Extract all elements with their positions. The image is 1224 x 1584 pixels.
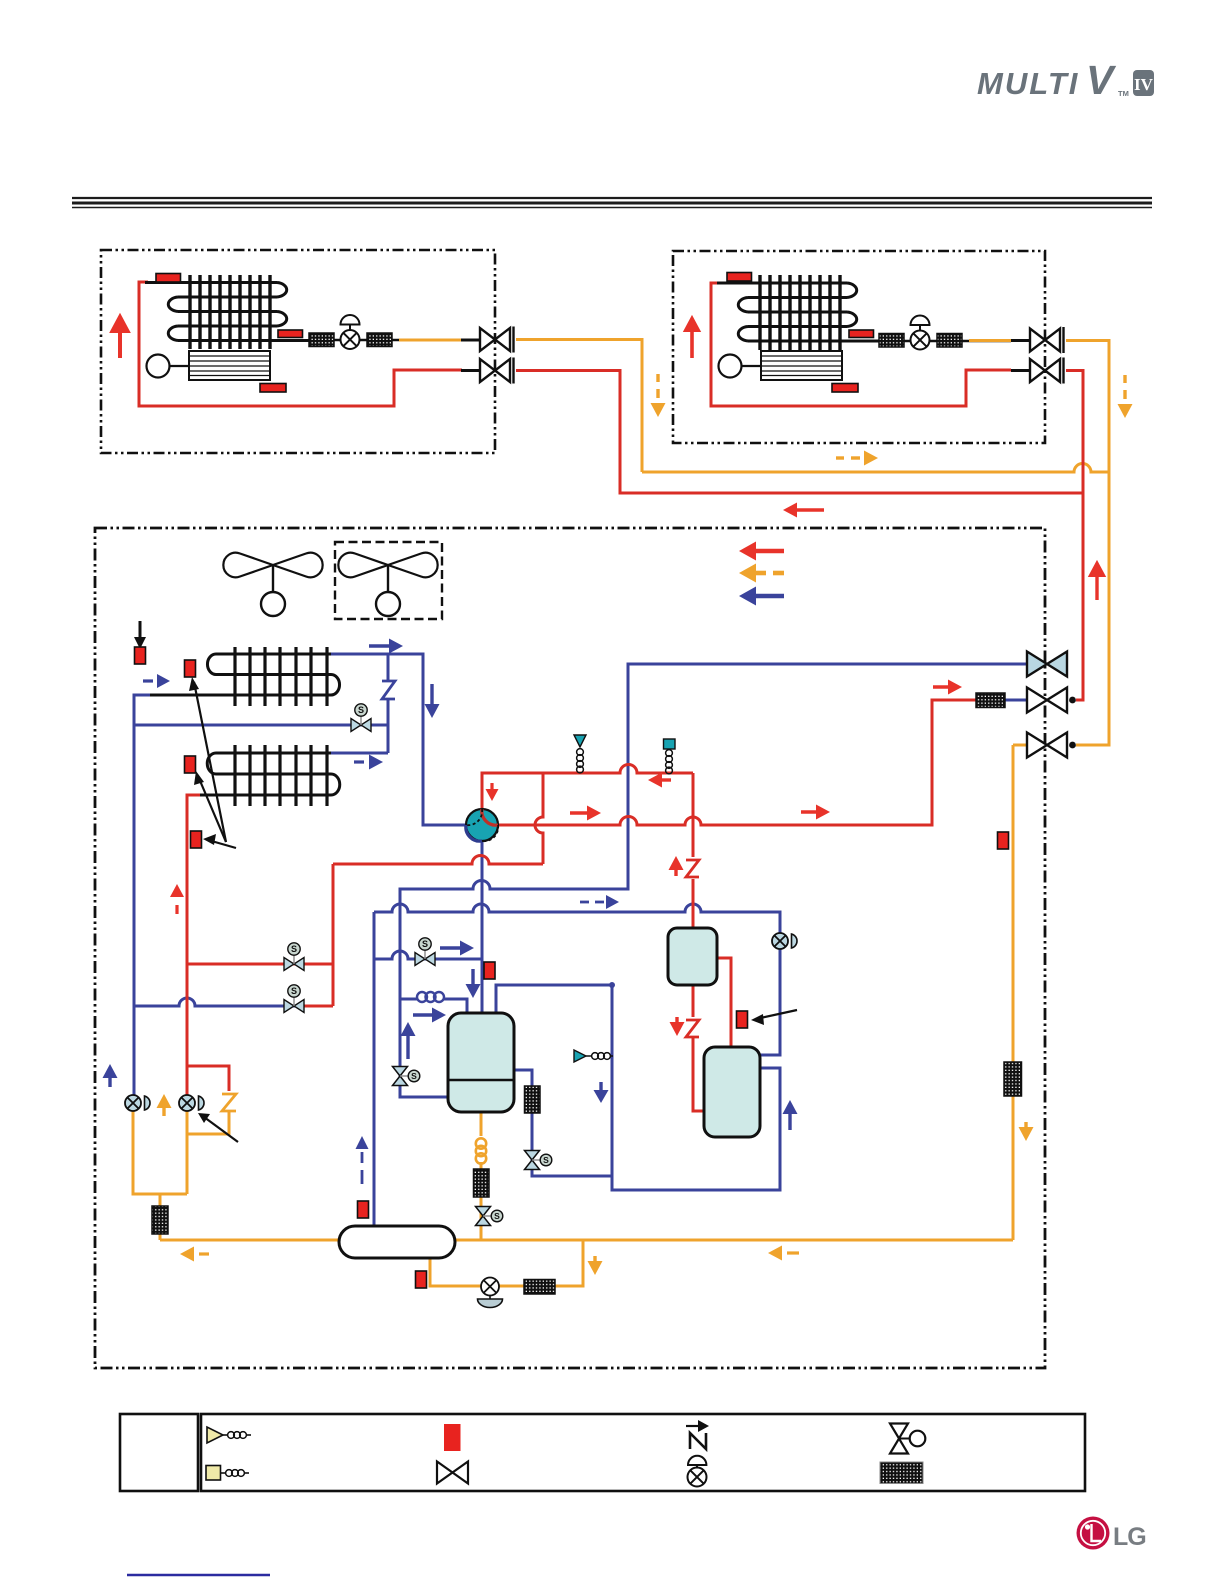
wire hot gas header (333, 856, 543, 865)
solenoid valve (hot gas upper) (284, 943, 304, 971)
indoor unit 2 fan coil (761, 351, 842, 380)
flow arrow navy up (left header) (103, 1064, 118, 1078)
flow arrow red right (hot gas 1) (570, 811, 589, 814)
service valve HP gas (filled) (1027, 652, 1067, 677)
wire hot-gas solenoid branch upper (187, 963, 333, 966)
wire hot-gas vertical with hop (535, 773, 543, 864)
wire HP gas service valve line (400, 664, 1028, 1097)
sensor (subcooler out) (737, 1011, 748, 1028)
service valve liquid (1027, 688, 1067, 713)
sensor (pipe temp, coil in) (156, 274, 181, 283)
vertical valve w/ S (liquid injection) (393, 1067, 420, 1086)
strainer (367, 333, 392, 347)
LG logo (1077, 1517, 1146, 1552)
wire gas service valve drop (1013, 745, 1028, 1240)
wire oil separator feed with Z gap (692, 773, 695, 928)
solenoid valve (hot gas lower) (284, 985, 304, 1013)
Z break red (subcooler drop) (686, 1020, 699, 1037)
wire defrost bypass lower segment (387, 700, 390, 753)
discharge pressure sensor (square) (664, 739, 676, 749)
flow arrow dashed yellow down (right of indoor2) (1123, 375, 1126, 399)
indoor unit 1 box (101, 250, 495, 453)
wire yellow indoor2 riser to gas service valve (1066, 341, 1109, 746)
solenoid valve (defrost line) (351, 704, 371, 732)
strainer (oil return) (474, 1169, 490, 1197)
wire red indoor1 to field piping (516, 371, 1083, 494)
wire yellow common field pipe (642, 464, 1109, 472)
outdoor unit box (95, 528, 1045, 1368)
indoor unit 2 liquid line (879, 340, 1011, 343)
flow arrow red down (subcooler drop) (675, 1017, 678, 1023)
wire lower solenoid branch (134, 998, 304, 1006)
solenoid valve (suction branch) (415, 938, 435, 966)
sensor (air temp) (260, 384, 286, 393)
sensor (outdoor air) with arrow (139, 621, 142, 641)
wire subcooler upper to lower (bottom) with Z gap (693, 985, 704, 1111)
wire subcooler upper to lower (side) (717, 958, 731, 1047)
flow arrow red right (hot gas 2) (801, 810, 818, 813)
wire oil balance (511, 1070, 612, 1176)
suction pressure sensor on injection drop (574, 1050, 586, 1062)
flow arrow red left (above outdoor unit) (783, 503, 797, 518)
strainer (oil balance) (525, 1086, 541, 1113)
sensor (coil1 temp) (185, 660, 196, 677)
indoor unit 1 gas pipe (red) (139, 282, 462, 406)
wire coil1 row3 to left header (134, 695, 150, 1096)
sensor (coil in, indoor2) (727, 273, 752, 282)
valve stub wires indoor 2 (1011, 339, 1030, 342)
annotation arrow to liquid sensor (208, 840, 236, 848)
flow arrow yellow dashed left (main line left) (180, 1247, 194, 1262)
wire EEV1 outlet (133, 1110, 187, 1194)
flow arrow navy dashed right (coil2 in) (354, 760, 364, 763)
indoor unit 1 fan motor (147, 355, 170, 378)
sensor (pipe temp, coil out) (278, 330, 303, 338)
yellow oil spring (476, 1138, 486, 1163)
outdoor coil 2 fins (235, 745, 327, 806)
triple rule (72, 198, 1152, 208)
outdoor coil 2 (lower) (200, 753, 340, 795)
annotation arrow to coil1 sensor (194, 682, 226, 842)
sensor (liquid pipe) (191, 831, 202, 848)
sensor (coil2 temp) (185, 756, 196, 773)
wire defrost bypass upper segment (387, 654, 390, 680)
service valve low pressure gas (1027, 733, 1067, 758)
indoor unit 2 gas pipe (red) (711, 283, 1011, 406)
wire liquid yellow (399, 339, 462, 342)
wire inductor line to compressor (400, 999, 467, 1013)
strainer (937, 334, 962, 348)
indoor unit 1 heat exchanger coil (168, 283, 309, 341)
flow arrow navy right (inductor line) (413, 1013, 433, 1016)
legend main box (201, 1414, 1085, 1491)
red flow arrow up (indoor 2) (685, 317, 700, 331)
wire 4-way to liquid line (498, 700, 976, 825)
flow arrow navy dashed up (accumulator drop) (356, 1136, 369, 1149)
indoor unit 2 box (673, 251, 1045, 443)
indoor unit 1 coil fins (190, 275, 270, 349)
strainer (879, 334, 904, 348)
stop valve (indoor1 liquid) (480, 327, 514, 353)
vertical valve w/ S (oil balance) (525, 1151, 552, 1170)
wire EEV2 outlet (186, 1110, 189, 1194)
legend expansion valve symbol (688, 1456, 706, 1465)
stop valve (indoor1 gas) (480, 358, 514, 384)
strainer (accumulator drain) (524, 1280, 555, 1295)
strainer (liquid main left) (152, 1206, 168, 1234)
red flow arrow up (indoor 1) (113, 317, 128, 358)
oil separator (subcooler upper vessel) (668, 928, 717, 985)
wire coil2 outlet red drop (187, 795, 200, 1095)
flow arrow navy up (subcooler return) (783, 1100, 798, 1114)
sensor (gas pipe right) (998, 832, 1009, 849)
MULTI V IV logo (977, 57, 1154, 103)
wire red indoor2 riser to liquid service valve (1066, 371, 1083, 701)
wire liquid out to main line (159, 1194, 162, 1240)
flow arrow navy up (injection valve) (401, 1022, 416, 1036)
electronic expansion valve (indoor 2) (911, 316, 930, 350)
strainer (309, 333, 334, 347)
annotation arrow to subcooler sensor (756, 1010, 797, 1019)
wire compressor injection return (496, 985, 780, 1190)
flow arrow navy right (coil1 out) (369, 644, 392, 647)
flow arrow navy down (injection drop) (599, 1082, 602, 1092)
subcooler lower vessel (704, 1047, 760, 1137)
legend arrow yellow dashed left (739, 564, 756, 583)
sensor (coil out, indoor2) (849, 330, 874, 338)
sensor (suction pipe) (484, 962, 495, 979)
4-way valve (466, 809, 498, 841)
wire yellow indoor1 to field piping (516, 340, 642, 473)
valve stub wires indoor 1 (461, 339, 480, 342)
legend service valve symbol (890, 1424, 908, 1454)
flow arrow navy dashed right (suction header) (580, 901, 604, 904)
indoor unit 2 fan motor (719, 355, 742, 378)
flow arrow dashed yellow right (below indoor2) (836, 456, 860, 459)
Z break navy (382, 681, 395, 699)
legend strainer symbol (880, 1462, 923, 1484)
indoor unit 2 coil inlet wire (717, 282, 847, 285)
flow arrow dashed yellow down (left of indoor2) (656, 374, 659, 398)
legend check valve symbol (207, 1427, 223, 1443)
flow arrow red dashed up (coil2 drop) (170, 884, 184, 897)
stop valve (indoor2 liquid) (1030, 327, 1064, 353)
annotation arrow to EEV2 (204, 1117, 238, 1142)
wire discharge top (482, 765, 693, 810)
wire EEV2 branch to Z (187, 1066, 229, 1091)
vertical valve w/ S (oil return) (476, 1207, 503, 1226)
legend capillary symbol (206, 1466, 221, 1481)
wire strainer to liquid service valve (1005, 699, 1028, 702)
compressor (448, 1013, 514, 1112)
strainer (liquid service) (976, 693, 1005, 708)
svg-text:MULTI: MULTI (977, 66, 1079, 101)
wire 4-way to compressor suction (481, 841, 484, 1013)
flow arrow navy right (solenoid branch) (440, 946, 461, 949)
indoor unit 1 liquid line (309, 339, 462, 342)
flow arrow red down (4-way in) (490, 783, 493, 790)
flow arrow navy dashed right (into coil1) (143, 679, 153, 682)
footer rule blue (127, 1574, 270, 1576)
legend Z break symbol (686, 1425, 701, 1427)
flow arrow yellow dashed left (main line right) (768, 1246, 782, 1261)
flow arrow red right (to liquid valve) (933, 685, 950, 688)
indoor unit 1 coil inlet wire (145, 281, 277, 284)
legend arrow red left (739, 542, 756, 561)
outdoor fan 2 (optional, dashed box) (335, 542, 442, 619)
wire solenoid branch upper (134, 724, 388, 727)
outdoor fan 1 (223, 553, 322, 616)
electronic expansion valve (indoor 1) (341, 315, 360, 349)
outdoor coil 1 (upper) (150, 654, 340, 695)
wire compressor oil return (480, 1112, 483, 1240)
wire main suction line (160, 1239, 1013, 1242)
indoor unit 1 fan coil (189, 351, 270, 380)
discharge pressure switch (triangle) (574, 735, 586, 747)
Z break red (oil separator feed) (686, 860, 699, 877)
EEV subcooler (772, 933, 797, 949)
wire accumulator oil drain (430, 1240, 583, 1286)
svg-text:IV: IV (1134, 75, 1154, 94)
flow arrow yellow down (gas drop) (1024, 1122, 1027, 1129)
accumulator drain valve (478, 1278, 503, 1308)
legend valve symbol (437, 1462, 468, 1484)
annotation arrow to coil2 sensor (198, 776, 226, 842)
flow arrow red up (oil sep feed) (669, 856, 684, 870)
svg-text:LG: LG (1113, 1523, 1146, 1551)
wire liquid yellow indoor2 (969, 339, 1011, 342)
flow arrow yellow down (drain riser) (593, 1256, 596, 1263)
EEV outdoor 2 (179, 1095, 204, 1111)
outdoor coil 1 fins (235, 647, 327, 706)
svg-text:TM: TM (1118, 89, 1129, 98)
flow arrow navy down (to 4-way) (430, 684, 433, 706)
wire solenoid branch to suction (374, 951, 481, 959)
legend sensor symbol (444, 1424, 461, 1451)
flow arrow yellow up (between EEVs) (157, 1094, 172, 1108)
wire Z branch lower (188, 1111, 229, 1134)
strainer (gas drop) (1004, 1062, 1022, 1096)
sensor (oil drain) (416, 1271, 427, 1288)
legend title box (120, 1414, 198, 1491)
flow arrow red up (liquid riser) (1090, 562, 1105, 576)
flow arrow navy down (suction) (471, 969, 474, 986)
legend arrow navy left (739, 587, 756, 606)
flow arrow red left (discharge top) (648, 773, 662, 788)
wire suction header to subcooler EEV (374, 904, 780, 1055)
wire hot-gas branch riser (304, 864, 333, 1006)
wire coil2 inlet (331, 752, 388, 755)
sensor (accumulator in) (358, 1201, 369, 1218)
sensor (air, indoor2) (832, 384, 858, 393)
indoor unit 2 heat exchanger coil (738, 283, 879, 341)
Z break yellow (222, 1094, 236, 1111)
stop valve (indoor2 gas) (1030, 358, 1064, 384)
svg-text:V: V (1086, 57, 1117, 103)
inductor coil (417, 992, 444, 1002)
EEV outdoor 1 (125, 1095, 150, 1111)
junction dot injection line (609, 982, 615, 988)
wire coil1 outlet to 4-way left port (331, 654, 467, 825)
indoor unit 2 coil fins (760, 275, 840, 350)
accumulator (339, 1226, 455, 1258)
wire accumulator drop (373, 912, 376, 1226)
